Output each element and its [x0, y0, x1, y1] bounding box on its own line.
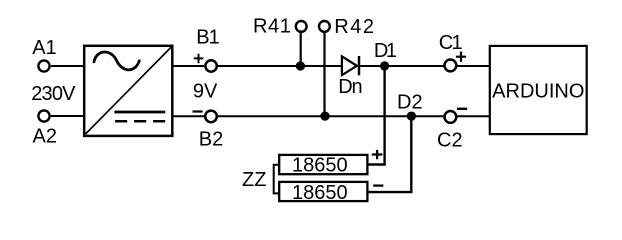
diode Dn triangle: [342, 56, 357, 75]
terminal R42: [319, 21, 330, 32]
svg-text:R42: R42: [334, 16, 375, 38]
wire A1 to PSU: [51, 65, 84, 67]
wire diode cathode to C1: [360, 65, 443, 67]
terminal C1: [445, 60, 457, 72]
svg-text:9V: 9V: [193, 81, 218, 103]
minus sign at B2: [193, 110, 203, 112]
node D2: [407, 111, 416, 120]
svg-text:C2: C2: [437, 129, 463, 151]
svg-text:18650: 18650: [292, 154, 348, 176]
wire R42 stem: [323, 33, 325, 116]
svg-text:18650: 18650: [292, 182, 348, 204]
wire R41 stem: [300, 33, 302, 66]
PSU diagonal line: [86, 47, 172, 134]
terminal B2: [205, 111, 217, 123]
svg-text:ZZ: ZZ: [242, 169, 266, 191]
junction node on top rail at R41: [296, 61, 305, 70]
plus sign at battery top: [372, 150, 383, 159]
plus sign at C1: [456, 52, 466, 62]
wire PSU to B1: [172, 65, 204, 67]
wire D2 stem to battery minus: [368, 116, 411, 192]
diode Dn cathode bar: [358, 56, 361, 75]
terminal B1: [205, 60, 216, 71]
ARDUINO box U1: [490, 46, 587, 134]
node D1: [380, 61, 389, 70]
terminal A2: [38, 110, 49, 121]
minus sign at battery bottom: [373, 184, 383, 186]
junction node on bottom rail at R42: [320, 111, 329, 120]
PSU DC solid line: [114, 111, 165, 114]
power supply box PSU: [84, 46, 172, 136]
bracket ZZ: [274, 165, 279, 194]
svg-text:D2: D2: [397, 92, 423, 114]
svg-text:C1: C1: [439, 32, 463, 54]
battery cell 18650 top box: [279, 155, 367, 174]
svg-text:B1: B1: [196, 27, 219, 49]
minus sign at C2: [457, 108, 467, 110]
wire A2 to PSU: [51, 115, 84, 117]
wire PSU to B2: [172, 115, 204, 117]
svg-text:230V: 230V: [31, 83, 76, 105]
terminal A1: [38, 60, 49, 71]
svg-text:Dn: Dn: [338, 76, 361, 98]
wire C1 to ARDUINO: [457, 65, 490, 67]
svg-text:R41: R41: [253, 16, 292, 38]
terminal C2: [445, 111, 457, 123]
PSU DC dashed line: [115, 120, 165, 123]
svg-text:B2: B2: [199, 129, 223, 151]
wire B1 to diode anode (top rail): [218, 65, 341, 67]
plus sign at B1: [194, 54, 204, 64]
wire B2 to C2 (bottom rail): [218, 115, 444, 117]
svg-text:A1: A1: [32, 37, 56, 59]
wire C2 to ARDUINO: [457, 115, 490, 117]
svg-text:A2: A2: [33, 126, 57, 148]
terminal R41: [296, 21, 307, 32]
svg-text:D1: D1: [374, 40, 397, 62]
wire D1 stem to battery plus: [368, 66, 384, 165]
battery cell 18650 bottom box: [279, 182, 367, 201]
svg-text:ARDUINO: ARDUINO: [492, 81, 584, 103]
PSU AC sine symbol: [94, 52, 139, 70]
